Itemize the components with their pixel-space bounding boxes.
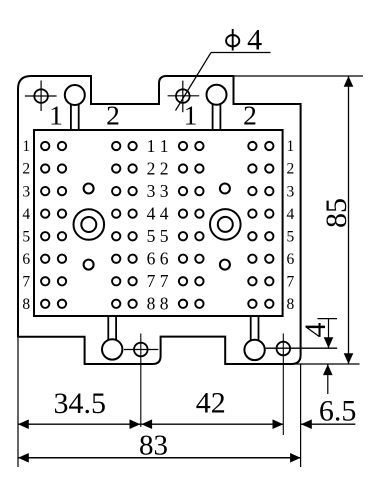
svg-text:4 4: 4 4 — [147, 204, 169, 224]
dimension 85 — [234, 76, 363, 364]
mid small hole left row3 — [84, 184, 94, 194]
row labels left 1-8 — [22, 138, 30, 313]
svg-text:4: 4 — [287, 206, 295, 223]
screw terminal bottom left — [102, 316, 122, 360]
contact holes row 1 — [41, 142, 273, 150]
svg-text:7 7: 7 7 — [147, 271, 169, 291]
extension line right edge — [300, 364, 302, 467]
contact holes row 3 — [41, 187, 273, 195]
contact holes row 6 — [41, 255, 273, 263]
screw terminal top 1 — [65, 85, 85, 130]
svg-text:1 1: 1 1 — [147, 136, 169, 156]
svg-text:1: 1 — [49, 100, 63, 131]
contact holes row 2 — [41, 164, 273, 172]
mounting hole top-middle — [168, 81, 200, 113]
extension line left edge — [17, 338, 19, 467]
svg-text:1: 1 — [184, 100, 198, 131]
svg-text:7: 7 — [22, 274, 30, 291]
body outline — [18, 76, 301, 364]
contact holes row 5 — [41, 232, 273, 240]
svg-text:42: 42 — [196, 386, 226, 419]
row labels right 1-8 — [287, 138, 295, 313]
svg-text:2: 2 — [22, 161, 30, 178]
svg-text:6: 6 — [22, 251, 30, 268]
svg-text:3 3: 3 3 — [147, 181, 169, 201]
svg-text:8 8: 8 8 — [147, 294, 169, 314]
top labels 1 2 1 2 — [49, 100, 257, 131]
svg-text:2: 2 — [106, 100, 120, 131]
svg-text:6: 6 — [287, 251, 295, 268]
big hole right — [210, 209, 241, 240]
svg-text:7: 7 — [287, 274, 295, 291]
dimension 34.5 and 42 — [18, 386, 283, 429]
svg-text:3: 3 — [22, 183, 30, 200]
svg-text:6.5: 6.5 — [319, 395, 357, 428]
svg-text:8: 8 — [287, 296, 295, 313]
mounting hole bottom right — [266, 334, 338, 436]
svg-text:34.5: 34.5 — [53, 387, 106, 420]
svg-text:5: 5 — [22, 228, 30, 245]
mid small hole left row6 — [84, 260, 94, 270]
svg-text:3: 3 — [287, 183, 295, 200]
leader line phi4 — [176, 53, 271, 111]
mid small hole right row3 — [220, 184, 230, 194]
big hole left — [74, 209, 105, 240]
mounting hole top-left — [25, 81, 57, 112]
dimension 6.5 — [301, 395, 356, 430]
contact holes row 4 — [41, 209, 273, 217]
svg-text:2: 2 — [287, 161, 295, 178]
svg-text:8: 8 — [22, 296, 30, 313]
svg-text:83: 83 — [139, 430, 168, 462]
mid small hole right row6 — [220, 260, 230, 270]
svg-text:2 2: 2 2 — [147, 158, 169, 178]
label phi 4 — [226, 23, 262, 56]
svg-text:6 6: 6 6 — [147, 249, 169, 269]
contact holes row 8 — [41, 300, 273, 308]
center pole labels 1 1 to 8 8 — [147, 136, 169, 314]
svg-text:1: 1 — [287, 138, 295, 155]
svg-text:5 5: 5 5 — [147, 226, 169, 246]
svg-text:5: 5 — [287, 228, 295, 245]
inner rectangle — [34, 130, 283, 316]
svg-text:4: 4 — [22, 206, 30, 223]
svg-text:85: 85 — [320, 198, 353, 228]
dimension 4 — [299, 319, 337, 394]
mounting hole bottom left — [124, 334, 158, 428]
svg-text:1: 1 — [22, 138, 30, 155]
svg-text:4: 4 — [299, 323, 332, 338]
screw terminal top 2 — [207, 85, 227, 130]
dimension 83 — [18, 430, 301, 463]
svg-text:4: 4 — [247, 23, 262, 56]
screw terminal bottom right — [244, 316, 264, 360]
svg-text:2: 2 — [243, 100, 257, 131]
contact holes row 7 — [41, 277, 273, 285]
